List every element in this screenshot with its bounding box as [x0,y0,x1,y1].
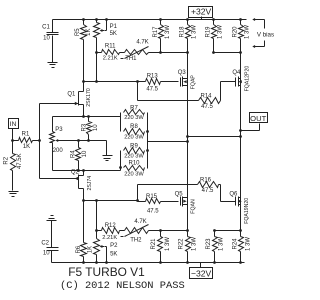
svg-text:1K: 1K [88,246,94,253]
svg-text:1 3W: 1 3W [191,237,197,251]
resistor R7 220 3W [124,105,145,120]
svg-text:5K: 5K [110,251,117,257]
wire inner output bus [187,53,189,231]
svg-text:C1: C1 [42,25,50,31]
resistor R23 1R 3W [206,231,224,264]
svg-text:FQA19N20: FQA19N20 [244,198,250,224]
svg-text:−32V: −32V [191,268,212,278]
svg-text:10: 10 [43,36,50,42]
svg-text:V bias: V bias [257,32,274,39]
wire TH2 to source node [149,229,189,232]
svg-text:220 3W: 220 3W [124,171,144,177]
svg-text:47.5: 47.5 [202,188,214,194]
resistor R4 10 [71,141,88,171]
trimpot P2 5K [94,201,119,264]
svg-text:47.5: 47.5 [147,208,159,214]
svg-text:R11: R11 [105,44,116,50]
svg-text:R13: R13 [147,74,159,80]
svg-text:220 3W: 220 3W [124,135,144,141]
svg-text:5K: 5K [110,31,117,37]
svg-text:Q2: Q2 [71,170,80,176]
svg-text:4.7K: 4.7K [136,39,148,45]
svg-text:Q4: Q4 [232,70,241,76]
trimpot P1 5K [94,18,118,81]
svg-text:P1: P1 [110,24,118,30]
title F5 TURBO V1 [68,265,145,279]
svg-text:1K: 1K [86,29,92,36]
svg-text:R5: R5 [75,28,81,36]
svg-text:1 3W: 1 3W [245,25,251,39]
V bias sense arrows [252,18,274,48]
resistor R5 1K [75,18,92,81]
svg-text:TH2: TH2 [130,238,142,244]
svg-text:R10: R10 [128,161,140,167]
ground below R2 [9,192,19,197]
svg-text:P3: P3 [55,127,63,133]
svg-text:10: 10 [93,124,99,131]
svg-text:R12: R12 [105,223,117,229]
ground below C1 [48,63,58,68]
svg-text:FQAN: FQAN [190,199,196,214]
jfet Q1 2SK170 [40,82,93,117]
resistor R1 1K [11,132,41,150]
svg-text:1K: 1K [23,144,30,150]
resistor R12 2.21K [97,223,120,241]
resistor R6 1K [76,201,94,264]
resistor R2 47.5K [4,141,23,191]
wire R23 R24 source node [213,229,242,232]
svg-text:R23: R23 [206,238,212,250]
svg-text:R22: R22 [179,238,185,250]
svg-text:R24: R24 [233,238,239,250]
svg-text:R17: R17 [153,26,159,38]
resistor R16 47.5 [138,178,236,202]
ground at P3 wiper [103,141,113,161]
resistor R14 47.5 [138,82,236,111]
svg-text:P2: P2 [110,243,118,249]
resistor R8 220 3W [124,124,145,140]
svg-text:Q1: Q1 [67,91,76,97]
resistor R15 47.5 [138,194,179,215]
wire output tie [186,135,242,138]
svg-text:(C) 2012 NELSON PASS: (C) 2012 NELSON PASS [60,280,185,292]
svg-text:2.21K: 2.21K [102,235,117,241]
svg-text:R20: R20 [232,26,238,38]
resistor R13 47.5 [138,74,179,93]
wire R19 R20 source node [212,51,242,54]
svg-text:R8: R8 [130,124,138,130]
node OUT [239,113,267,132]
svg-text:+32V: +32V [191,7,212,17]
svg-text:10: 10 [82,150,88,157]
capacitor C2 [41,221,58,263]
jfet Q2 2SJ74 [40,170,94,201]
svg-text:R19: R19 [205,26,211,38]
svg-text:IN: IN [10,121,17,128]
wire -32V rail [52,262,245,264]
wire feedback tap [148,140,189,143]
svg-text:1 3W: 1 3W [165,25,171,39]
svg-text:R9: R9 [130,143,138,149]
svg-text:1 3W: 1 3W [245,237,251,251]
svg-text:Q6: Q6 [229,192,238,198]
svg-text:R7: R7 [130,105,138,111]
svg-text:Q5: Q5 [175,192,184,198]
mosfet Q5 FQAN [175,192,197,214]
svg-text:OUT: OUT [250,114,266,123]
thermistor TH2 4.7K [120,219,149,243]
svg-text:R2: R2 [4,156,10,164]
wire Q1 drain node [82,80,139,83]
svg-text:R1: R1 [22,132,30,138]
svg-text:R21: R21 [151,238,157,250]
ground above C2 [47,216,57,221]
svg-text:47.5K: 47.5K [17,153,23,169]
resistor R21 1R 3W [151,231,171,264]
svg-text:47.5: 47.5 [201,104,213,110]
capacitor C1 [42,20,58,63]
resistor R3 10 [81,117,99,141]
svg-text:F5 TURBO V1: F5 TURBO V1 [68,265,145,279]
resistor R9 220 3W [124,143,145,159]
mosfet Q3 FQAP [178,70,197,89]
resistor R22 1R 3W [179,231,198,264]
svg-text:R6: R6 [76,245,82,253]
resistor R19 1R 3W [205,18,223,52]
svg-text:10: 10 [43,251,50,257]
svg-text:R16: R16 [200,178,212,184]
svg-text:1 3W: 1 3W [218,25,224,39]
svg-text:2SK170: 2SK170 [86,88,92,107]
svg-text:R18: R18 [179,26,185,38]
title copyright [60,280,185,292]
svg-text:220 3W: 220 3W [124,115,144,121]
svg-text:1 3W: 1 3W [191,25,197,39]
thermistor TH1 4.7K [120,39,149,61]
svg-text:2SJ74: 2SJ74 [87,176,93,191]
wire gate bus [39,104,41,179]
resistor R10 220 3W [124,161,145,178]
svg-text:R4: R4 [71,150,77,158]
svg-text:2.21K: 2.21K [103,55,118,61]
resistor R20 1R 3W [232,18,250,52]
wire Q2 source node [53,169,121,172]
resistor R17 1R 3W [153,18,171,52]
svg-text:FQA12P20: FQA12P20 [244,66,250,92]
trimpot P3 200 [50,117,64,171]
svg-text:R15: R15 [146,194,158,200]
mosfet Q4 FQA12P20 [232,66,250,92]
svg-text:R3: R3 [81,123,87,131]
wire outer output bus [240,53,242,231]
resistor R24 1R 3W [233,231,252,264]
power +32V label [189,7,213,20]
svg-text:FQAP: FQAP [190,75,196,90]
node IN [9,119,19,141]
svg-text:1 3W: 1 3W [219,237,225,251]
wire Q2 drain node [82,199,139,202]
svg-text:220 3W: 220 3W [124,154,144,160]
svg-text:4.7K: 4.7K [134,219,146,225]
resistor R11 2.21K [97,44,120,62]
svg-text:TH1: TH1 [125,56,137,62]
wire P3 wiper [63,139,107,142]
wire +32V rail [53,19,247,21]
svg-text:C2: C2 [41,241,49,247]
resistor R18 1R 3W [179,18,197,52]
power -32V label [190,263,213,279]
svg-text:200: 200 [53,148,64,154]
mosfet Q6 FQA19N20 [229,192,250,224]
svg-text:47.5: 47.5 [146,87,158,93]
wire TH1 to source node [149,51,189,54]
svg-text:1 3W: 1 3W [165,237,171,251]
wire feedback bars [119,113,149,171]
wire Q1 source node [53,115,121,118]
svg-text:R14: R14 [200,94,212,100]
svg-text:Q3: Q3 [178,70,187,76]
